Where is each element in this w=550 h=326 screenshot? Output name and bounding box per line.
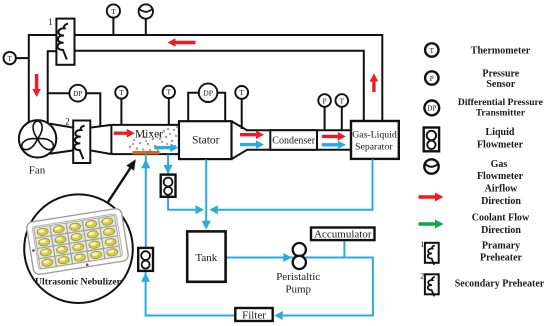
svg-text:Accumulator: Accumulator bbox=[314, 229, 372, 241]
DP transmitter DP2 bbox=[199, 83, 218, 102]
legend secondary preheater symbol bbox=[420, 272, 438, 297]
svg-text:T: T bbox=[7, 54, 12, 63]
svg-text:Gas: Gas bbox=[491, 159, 508, 170]
svg-text:Filter: Filter bbox=[242, 309, 266, 321]
wire thermometer T1 stem bbox=[16, 57, 29, 59]
arrowhead up into mixer bbox=[141, 159, 150, 168]
arrowhead right into junction bbox=[196, 205, 205, 214]
svg-text:Pump: Pump bbox=[285, 284, 311, 296]
svg-text:P: P bbox=[323, 96, 327, 105]
arrowhead down into flowmeter F1 bbox=[164, 165, 173, 174]
wire DP2 left tap bbox=[188, 92, 199, 122]
filter bbox=[235, 308, 272, 321]
svg-text:Direction: Direction bbox=[481, 225, 521, 236]
legend pressure sensor symbol bbox=[425, 71, 438, 84]
svg-text:Direction: Direction bbox=[481, 196, 521, 207]
thermometer T6 bbox=[336, 94, 349, 107]
thermometer T1 bbox=[4, 52, 16, 64]
svg-text:2: 2 bbox=[420, 272, 424, 281]
thermometer T5 bbox=[235, 86, 248, 99]
svg-text:T: T bbox=[430, 46, 435, 55]
svg-text:Coolant Flow: Coolant Flow bbox=[472, 212, 530, 223]
thermometer T4 bbox=[163, 86, 175, 98]
arrowhead left into filter bbox=[274, 311, 283, 320]
ultrasonic nebulizer plate bbox=[26, 208, 129, 275]
wire thermometer T3 stem bbox=[120, 99, 122, 125]
airflow arrow left duct (red down) bbox=[32, 74, 41, 97]
svg-text:Secondary Preheater: Secondary Preheater bbox=[455, 279, 545, 290]
svg-text:1: 1 bbox=[420, 240, 424, 249]
svg-text:T: T bbox=[119, 88, 124, 97]
airflow arrow top duct (red left) bbox=[168, 38, 196, 47]
wire top duct outer line bbox=[29, 34, 383, 121]
liquid flowmeter F2 bbox=[138, 248, 153, 271]
thermometer T2 bbox=[107, 4, 120, 17]
svg-text:Sensor: Sensor bbox=[486, 79, 515, 90]
svg-text:Fan: Fan bbox=[29, 165, 46, 177]
wire thermometer T5 stem bbox=[241, 99, 243, 129]
arrowhead down into tank bbox=[202, 221, 211, 230]
wire top duct inner line left of preheater 1 bbox=[48, 50, 57, 52]
coolant arrow before separator (blue right) bbox=[322, 141, 346, 150]
svg-text:T: T bbox=[239, 88, 244, 97]
nebulizer pointer arrow bbox=[108, 159, 136, 202]
wire thermometer T2 stem bbox=[112, 18, 114, 35]
tank bbox=[187, 231, 225, 281]
svg-text:Airflow: Airflow bbox=[485, 184, 519, 195]
svg-text:Condenser: Condenser bbox=[272, 136, 315, 147]
peristaltic pump bbox=[293, 243, 306, 269]
wire DP1 right tap bbox=[86, 92, 100, 126]
legend gas flowmeter symbol bbox=[424, 159, 438, 173]
svg-text:P: P bbox=[430, 74, 434, 83]
wire fan outlet cone bbox=[50, 124, 74, 154]
wire left duct outer vertical bbox=[28, 34, 30, 123]
svg-text:Liquid: Liquid bbox=[486, 127, 515, 138]
wire mixer duct top line bbox=[111, 124, 179, 126]
pipe water feed to mixer bbox=[145, 155, 147, 248]
gas-liquid separator bbox=[351, 121, 399, 159]
svg-text:Ultrasonic Nebulizer: Ultrasonic Nebulizer bbox=[35, 276, 121, 286]
svg-text:DP: DP bbox=[427, 105, 436, 113]
pipe tank outlet to pump line bbox=[226, 257, 373, 259]
pipe pump line down riser bbox=[372, 257, 374, 316]
legend coolant arrow (green) bbox=[419, 220, 444, 229]
spray droplets in mixer bbox=[129, 126, 178, 152]
svg-text:DP: DP bbox=[73, 90, 82, 98]
svg-text:Gas-Liquid: Gas-Liquid bbox=[352, 130, 397, 141]
arrowhead right into pump bbox=[283, 253, 292, 262]
pipe flowmeter F1 to junction bbox=[168, 197, 197, 210]
pipe accumulator stem bbox=[343, 240, 345, 257]
gas flowmeter top bbox=[139, 4, 153, 18]
svg-text:2: 2 bbox=[65, 117, 70, 127]
svg-text:T: T bbox=[340, 96, 345, 105]
svg-text:Separator: Separator bbox=[355, 141, 393, 152]
wire gas flowmeter stem bbox=[145, 19, 147, 35]
wire top duct inner line right of preheater 1 bbox=[75, 50, 364, 121]
coolant arrow in mixer (blue right) bbox=[154, 143, 178, 152]
pipe mixer overflow to flowmeter F1 bbox=[167, 155, 169, 175]
wire thermometer T6 stem bbox=[341, 107, 343, 130]
svg-text:Flowmeter: Flowmeter bbox=[477, 139, 524, 150]
wire diffuser cone to mixer duct bbox=[90, 125, 111, 154]
ultrasonic nebulizer circle bbox=[24, 194, 133, 303]
pipe separator drain to junction bbox=[213, 159, 373, 210]
airflow arrow in mixer (red right) bbox=[114, 129, 135, 138]
condenser bbox=[270, 130, 317, 150]
svg-text:Stator: Stator bbox=[192, 134, 220, 146]
wire thermometer T4 stem bbox=[168, 98, 170, 125]
wire DP2 right tap bbox=[217, 92, 225, 122]
svg-text:Flowmeter: Flowmeter bbox=[477, 171, 524, 182]
liquid flowmeter F1 bbox=[161, 175, 176, 197]
svg-text:T: T bbox=[167, 88, 172, 97]
pressure sensor P1 bbox=[318, 94, 331, 107]
accumulator bbox=[311, 228, 375, 241]
svg-text:Mixer: Mixer bbox=[135, 128, 163, 140]
svg-text:DP: DP bbox=[203, 89, 214, 98]
wire pressure sensor P stem bbox=[324, 107, 326, 130]
legend DP transmitter symbol bbox=[424, 101, 439, 116]
svg-text:T: T bbox=[111, 7, 116, 16]
coolant arrow after stator (blue right) bbox=[240, 140, 264, 149]
airflow arrow riser (red up) bbox=[370, 74, 379, 93]
svg-text:Preheater: Preheater bbox=[480, 253, 523, 264]
legend primary preheater symbol bbox=[420, 240, 438, 265]
legend thermometer symbol bbox=[425, 43, 438, 56]
ultrasonic transducer plate (orange) bbox=[133, 151, 160, 154]
wire left duct inner vertical bbox=[47, 50, 49, 123]
arrowhead left into junction bbox=[209, 205, 218, 214]
svg-text:Pramary: Pramary bbox=[482, 241, 520, 252]
svg-text:Transmitter: Transmitter bbox=[476, 107, 526, 118]
primary preheater 1 bbox=[56, 19, 74, 65]
legend liquid flowmeter symbol bbox=[424, 128, 439, 152]
pipe stator drain to tank bbox=[205, 160, 207, 223]
wire stator outlet cone bbox=[232, 121, 248, 159]
svg-text:1: 1 bbox=[48, 17, 53, 27]
wire condenser duct lines bbox=[246, 130, 351, 150]
secondary preheater 2 bbox=[73, 121, 90, 164]
svg-text:Tank: Tank bbox=[195, 252, 217, 264]
thermometer T3 bbox=[115, 86, 127, 98]
stator U1 bbox=[179, 121, 232, 159]
arrowhead up into flowmeter F2 bbox=[141, 273, 150, 282]
legend airflow arrow (red) bbox=[419, 193, 444, 202]
pipe filter to flowmeter F2 riser bbox=[146, 272, 236, 317]
pipe bottom return to filter bbox=[276, 315, 374, 317]
wire mixer duct bottom line bbox=[111, 153, 179, 155]
airflow arrow before separator (red right) bbox=[322, 132, 346, 141]
svg-text:Thermometer: Thermometer bbox=[471, 46, 531, 57]
wire DP1 left tap bbox=[48, 92, 70, 94]
DP transmitter DP1 bbox=[69, 85, 86, 102]
fan bbox=[19, 120, 56, 157]
svg-text:Peristaltic: Peristaltic bbox=[276, 271, 320, 283]
airflow arrow after stator (red right) bbox=[240, 130, 264, 139]
